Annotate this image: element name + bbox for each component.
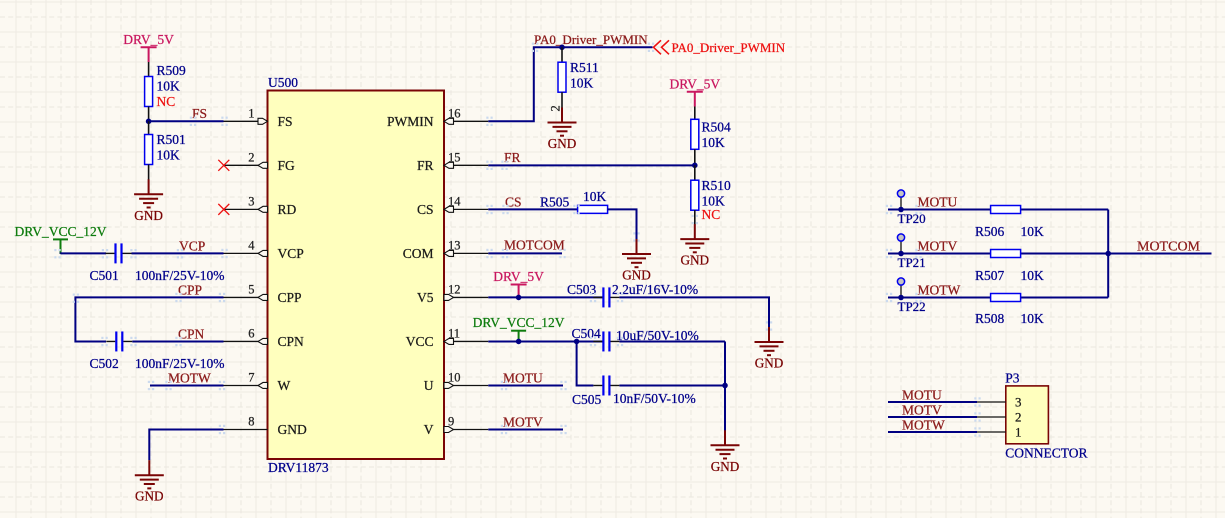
capacitor C503 xyxy=(593,296,602,298)
pin 1 FS xyxy=(224,106,293,129)
svg-text:CPP: CPP xyxy=(278,290,302,305)
svg-text:100nF/25V-10%: 100nF/25V-10% xyxy=(135,356,225,371)
svg-text:R509: R509 xyxy=(157,63,187,78)
wire MOTW (TP row 3) xyxy=(888,297,1108,299)
svg-text:GND: GND xyxy=(755,356,784,371)
resistor R504 xyxy=(691,119,699,149)
pin 12 V5 xyxy=(417,282,488,305)
svg-text:CPP: CPP xyxy=(178,283,202,298)
resistor R508 xyxy=(991,294,1021,302)
svg-text:MOTCOM: MOTCOM xyxy=(504,238,565,253)
wire MOTV to P3 xyxy=(888,416,977,418)
svg-text:FR: FR xyxy=(417,158,434,173)
resistor R510 xyxy=(691,180,699,210)
ground GND-2 xyxy=(135,460,164,488)
pin 15 FR xyxy=(417,150,488,173)
svg-text:C502: C502 xyxy=(90,356,119,371)
resistor R509 xyxy=(145,77,153,107)
no-connect X xyxy=(218,160,229,171)
svg-text:FS: FS xyxy=(278,114,293,129)
pin 4 VCP xyxy=(224,238,304,261)
pin 2 FG xyxy=(224,150,296,173)
svg-text:10K: 10K xyxy=(1021,268,1045,283)
pin 10 U xyxy=(424,370,489,393)
wire MOTW to P3 xyxy=(888,431,977,433)
wire VCC12 to C501 xyxy=(61,252,107,254)
pin 8 GND xyxy=(224,415,307,438)
svg-text:PA0_Driver_PWMIN: PA0_Driver_PWMIN xyxy=(672,40,786,55)
svg-text:MOTW: MOTW xyxy=(918,283,961,298)
pin 13 COM xyxy=(403,238,489,261)
svg-text:3: 3 xyxy=(248,194,254,208)
svg-text:VCP: VCP xyxy=(278,246,304,261)
svg-text:GND: GND xyxy=(278,422,307,437)
power port DRV_VCC_12V (P-VCC12-2) xyxy=(511,331,526,342)
svg-text:10K: 10K xyxy=(157,148,181,163)
wire C504 down to C505 junction xyxy=(724,341,726,385)
svg-text:16: 16 xyxy=(448,106,461,120)
pin 7 W xyxy=(224,370,291,393)
svg-text:DRV11873: DRV11873 xyxy=(268,460,329,475)
svg-text:3: 3 xyxy=(1015,395,1022,410)
svg-text:7: 7 xyxy=(248,370,254,384)
svg-text:W: W xyxy=(278,378,291,393)
wire FS net xyxy=(149,120,224,122)
svg-text:11: 11 xyxy=(448,326,460,340)
svg-text:DRV_VCC_12V: DRV_VCC_12V xyxy=(473,315,565,330)
svg-text:NC: NC xyxy=(702,207,721,222)
wire CPP net xyxy=(75,297,223,341)
svg-text:10K: 10K xyxy=(1021,224,1045,239)
wire pin8 to ground xyxy=(149,430,223,461)
svg-text:15: 15 xyxy=(448,150,461,164)
svg-text:C505: C505 xyxy=(572,392,602,407)
power port DRV_5V (P-DRV5V-1) xyxy=(141,47,157,62)
capacitor C501 xyxy=(106,252,115,254)
svg-text:R510: R510 xyxy=(702,178,732,193)
svg-text:CPN: CPN xyxy=(178,327,205,342)
wire R501 to ground xyxy=(148,165,150,181)
ground GND-8 xyxy=(711,430,740,458)
svg-text:RD: RD xyxy=(278,202,297,217)
wire C505 to junction xyxy=(619,384,725,386)
ground GND-5 xyxy=(680,224,709,252)
ground GND-1 xyxy=(134,179,163,207)
pin 9 V xyxy=(424,415,489,438)
wire R511 to ground xyxy=(561,92,563,107)
wire PWMIN net xyxy=(488,47,652,121)
wire endpoint marks xyxy=(190,117,192,119)
svg-text:MOTV: MOTV xyxy=(503,415,543,430)
svg-text:MOTV: MOTV xyxy=(918,239,958,254)
capacitor C504 xyxy=(593,340,602,342)
svg-text:PA0_Driver_PWMIN: PA0_Driver_PWMIN xyxy=(534,32,648,47)
pin 3 of P3 (MOTU) xyxy=(977,395,1022,410)
pin 2 of P3 (MOTV) xyxy=(977,410,1022,425)
pin 14 CS xyxy=(417,194,488,217)
wire MOTW net xyxy=(150,384,224,386)
svg-text:VCC: VCC xyxy=(406,334,434,349)
svg-text:DRV_VCC_12V: DRV_VCC_12V xyxy=(15,224,107,239)
svg-text:10: 10 xyxy=(448,370,461,384)
node PA0 junction xyxy=(559,45,565,51)
test point TP20 xyxy=(900,198,902,210)
wire junction to R510 xyxy=(694,165,696,180)
svg-text:2: 2 xyxy=(248,150,254,164)
node FS junction xyxy=(146,119,152,125)
svg-text:GND: GND xyxy=(711,459,740,474)
ground GND-3 xyxy=(548,108,577,136)
wire junction to R501 xyxy=(148,121,150,134)
resistor R507 xyxy=(991,250,1021,258)
wire power to R504 xyxy=(694,107,696,120)
op-amp U1 IC U500 DRV11873 body xyxy=(268,91,445,460)
svg-text:VCP: VCP xyxy=(179,239,205,254)
svg-text:8: 8 xyxy=(248,415,254,429)
svg-text:P3: P3 xyxy=(1005,371,1020,386)
wire MOTU to P3 xyxy=(888,401,977,403)
wire V5 net xyxy=(488,296,603,298)
wire R505 to ground xyxy=(608,209,637,239)
pin 1 of P3 (MOTW) xyxy=(977,425,1022,440)
svg-text:R506: R506 xyxy=(975,224,1005,239)
node MOTCOM junction xyxy=(1105,251,1111,257)
svg-text:100nF/25V-10%: 100nF/25V-10% xyxy=(135,268,225,283)
port PA0_Driver_PWMIN chevron xyxy=(654,40,670,54)
svg-text:10K: 10K xyxy=(702,135,726,150)
wire C501 to pin4 xyxy=(132,252,224,254)
svg-text:FG: FG xyxy=(278,158,296,173)
svg-text:1: 1 xyxy=(1015,425,1022,440)
svg-text:C504: C504 xyxy=(572,326,602,341)
svg-text:10K: 10K xyxy=(583,189,607,204)
wire MOTU net xyxy=(488,384,563,386)
resistor R506 xyxy=(991,206,1021,214)
svg-text:10K: 10K xyxy=(1021,311,1045,326)
svg-text:GND: GND xyxy=(135,489,164,504)
svg-text:R507: R507 xyxy=(975,268,1005,283)
wire C504 to vertical xyxy=(619,340,725,342)
pin 5 CPP xyxy=(224,282,302,305)
svg-text:U500: U500 xyxy=(268,75,298,90)
wire C505 branch xyxy=(577,341,594,385)
wire R504 to FR junction xyxy=(694,149,696,165)
svg-text:13: 13 xyxy=(448,238,461,252)
ground GND-4 xyxy=(622,239,651,267)
svg-text:CS: CS xyxy=(505,195,522,210)
pin 6 CPN xyxy=(224,326,305,349)
svg-text:1: 1 xyxy=(248,106,254,120)
svg-text:MOTU: MOTU xyxy=(503,371,543,386)
svg-text:COM: COM xyxy=(403,246,434,261)
node C504/C505 junction xyxy=(574,339,580,345)
wire vertical bus to MOTCOM xyxy=(1107,210,1109,298)
wire R509 to junction xyxy=(148,107,150,122)
svg-text:MOTCOM: MOTCOM xyxy=(1137,240,1201,255)
resistor R511 xyxy=(558,62,566,92)
resistor R505 xyxy=(578,205,608,213)
svg-text:R504: R504 xyxy=(702,120,732,135)
node FR junction xyxy=(692,163,698,169)
svg-text:CS: CS xyxy=(417,202,434,217)
test point TP22 xyxy=(900,286,902,298)
svg-text:V: V xyxy=(424,422,434,437)
svg-text:C501: C501 xyxy=(90,268,119,283)
wire CS net xyxy=(488,208,577,210)
svg-text:NC: NC xyxy=(157,94,176,109)
wire R510 to ground xyxy=(694,210,696,224)
svg-text:12: 12 xyxy=(448,282,461,296)
svg-text:DRV_5V: DRV_5V xyxy=(669,76,720,91)
wire VCC net xyxy=(488,340,603,342)
svg-text:V5: V5 xyxy=(417,290,434,305)
node cap gnd junction xyxy=(722,383,728,389)
svg-text:R508: R508 xyxy=(975,311,1005,326)
svg-text:CONNECTOR: CONNECTOR xyxy=(1005,446,1087,461)
svg-text:2: 2 xyxy=(549,105,563,111)
svg-text:5: 5 xyxy=(248,282,254,296)
test point TP21 xyxy=(900,242,902,254)
power port DRV_VCC_12V (P-VCC12-1) xyxy=(53,239,68,254)
wire FR net xyxy=(488,164,695,166)
wire C502 to pin6 xyxy=(132,340,223,342)
svg-text:CPN: CPN xyxy=(278,334,305,349)
svg-text:GND: GND xyxy=(681,253,710,268)
node V5 power junction xyxy=(516,295,522,301)
svg-text:GND: GND xyxy=(548,136,577,151)
power port DRV_5V (P-DRV5V-2) xyxy=(687,92,703,107)
wire power to R509 xyxy=(148,62,150,77)
svg-text:GND: GND xyxy=(134,208,163,223)
pin 11 VCC xyxy=(406,326,489,349)
svg-text:R511: R511 xyxy=(570,60,599,75)
svg-text:MOTW: MOTW xyxy=(168,371,211,386)
connector P3 body xyxy=(1006,386,1049,444)
svg-text:MOTU: MOTU xyxy=(902,388,942,403)
svg-text:MOTU: MOTU xyxy=(918,195,958,210)
svg-text:2: 2 xyxy=(1015,410,1022,425)
svg-text:R501: R501 xyxy=(157,132,186,147)
wire MOTCOM net (pin 13) xyxy=(488,252,562,254)
capacitor C502 xyxy=(106,340,115,342)
svg-text:6: 6 xyxy=(248,326,254,340)
pin 3 RD xyxy=(224,194,297,217)
svg-text:PWMIN: PWMIN xyxy=(387,114,434,129)
svg-text:GND: GND xyxy=(622,268,651,283)
wire C503 to ground xyxy=(619,297,769,327)
svg-text:9: 9 xyxy=(448,415,454,429)
svg-text:10K: 10K xyxy=(570,76,594,91)
svg-text:C503: C503 xyxy=(567,282,597,297)
svg-text:U: U xyxy=(424,378,434,393)
svg-text:2.2uF/16V-10%: 2.2uF/16V-10% xyxy=(612,282,698,297)
svg-text:4: 4 xyxy=(248,238,255,252)
node VCC power junction xyxy=(516,339,522,345)
resistor R501 xyxy=(145,135,153,165)
pin 16 PWMIN xyxy=(387,106,488,129)
svg-text:MOTV: MOTV xyxy=(902,403,942,418)
no-connect X xyxy=(218,204,229,215)
svg-text:MOTW: MOTW xyxy=(902,418,945,433)
capacitor C505 xyxy=(593,384,602,386)
power port DRV_5V (P-DRV5V-3) xyxy=(511,285,527,298)
svg-text:10nF/50V-10%: 10nF/50V-10% xyxy=(613,391,696,406)
svg-text:R505: R505 xyxy=(540,195,570,210)
svg-text:DRV_5V: DRV_5V xyxy=(123,32,174,47)
wire MOTU (TP row 1) xyxy=(888,209,1108,211)
svg-text:DRV_5V: DRV_5V xyxy=(493,269,544,284)
svg-text:10K: 10K xyxy=(157,79,181,94)
wire MOTV net xyxy=(488,429,563,431)
wire junction to R511 xyxy=(561,47,563,62)
ground GND-7 xyxy=(755,327,784,355)
wire MOTV (TP row 2) / MOTCOM xyxy=(888,253,1212,255)
wire caps to ground xyxy=(724,385,726,431)
svg-text:14: 14 xyxy=(448,194,461,208)
